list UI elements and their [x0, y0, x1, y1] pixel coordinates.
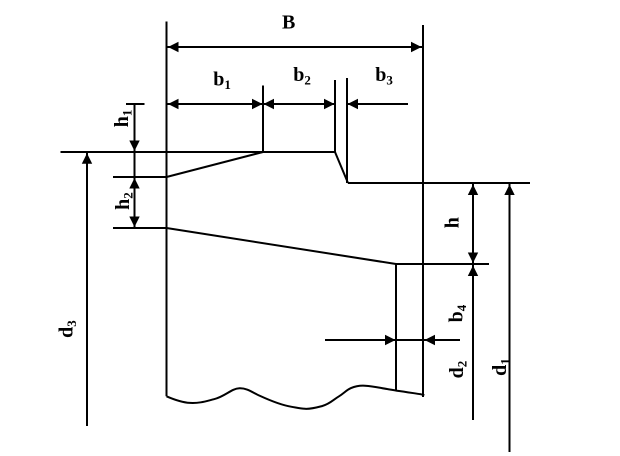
wire h and d2 dimension vertical	[472, 184, 474, 421]
wire left extension/profile vertical	[166, 22, 168, 397]
arrow b2 left	[264, 99, 275, 109]
arrow b4 right	[385, 335, 396, 345]
arrow B right	[411, 42, 422, 52]
arrow b1 right	[252, 99, 263, 109]
wire datum top line	[61, 151, 336, 153]
wire B dimension line	[167, 46, 424, 48]
arrow b1 left	[168, 99, 179, 109]
arrow h up	[468, 185, 478, 196]
arrow h down	[468, 253, 478, 264]
wire b4 dimension left part	[325, 339, 424, 341]
svg-text:B: B	[282, 12, 295, 34]
wire b2 right extension	[334, 80, 336, 152]
wire lower right shelf	[396, 263, 489, 265]
arrow d3 up	[82, 153, 92, 164]
arrow h1 down	[129, 141, 139, 152]
wire upper left slope	[167, 152, 264, 177]
arrow d1 up	[504, 185, 514, 196]
wire b2 dimension line	[263, 103, 335, 105]
arrow d2 up	[468, 266, 478, 277]
wire b1 dimension line	[167, 103, 264, 105]
arrow B left	[168, 42, 179, 52]
wire b3 left extension	[346, 78, 348, 183]
arrow b2 right	[324, 99, 335, 109]
svg-text:h: h	[442, 217, 464, 228]
wire d1 dimension vertical	[509, 184, 511, 453]
wire right extension/profile vertical	[422, 25, 424, 397]
wire h1/h2 dimension vertical	[134, 104, 136, 228]
wire lower slope	[167, 228, 397, 264]
wire b3 dimension line	[347, 103, 408, 105]
wire d3 dimension vertical	[86, 152, 88, 426]
arrow b3 left	[348, 99, 359, 109]
arrow b4 left	[425, 335, 436, 345]
wire h2 top extension shelf	[113, 176, 167, 178]
wire h2 bottom extension	[113, 227, 167, 229]
arrow h2 up	[129, 178, 139, 189]
wire inner profile vertical	[395, 264, 397, 391]
arrow h2 down	[129, 217, 139, 228]
wire b1/b2 divider extension	[262, 86, 264, 153]
wire b4 dimension right tail	[424, 339, 460, 341]
wire freehand break line	[167, 386, 425, 409]
wire h1 top tick	[126, 103, 145, 105]
wire groove slope	[335, 152, 348, 183]
wire right reference line	[348, 182, 530, 184]
